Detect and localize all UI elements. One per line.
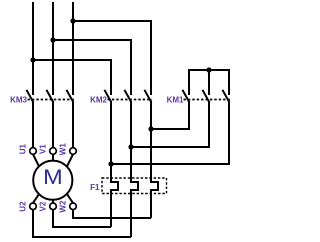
svg-text:W2: W2 [59,200,68,213]
svg-text:F1: F1 [90,183,100,192]
svg-text:U1: U1 [19,144,28,155]
svg-text:M: M [43,165,63,189]
svg-text:W1: W1 [59,143,68,156]
svg-text:V1: V1 [39,144,48,154]
svg-text:KM1: KM1 [167,96,184,105]
svg-text:KM3: KM3 [10,96,27,105]
svg-text:V2: V2 [39,201,48,211]
svg-text:U2: U2 [19,201,28,212]
svg-text:KM2: KM2 [90,96,107,105]
